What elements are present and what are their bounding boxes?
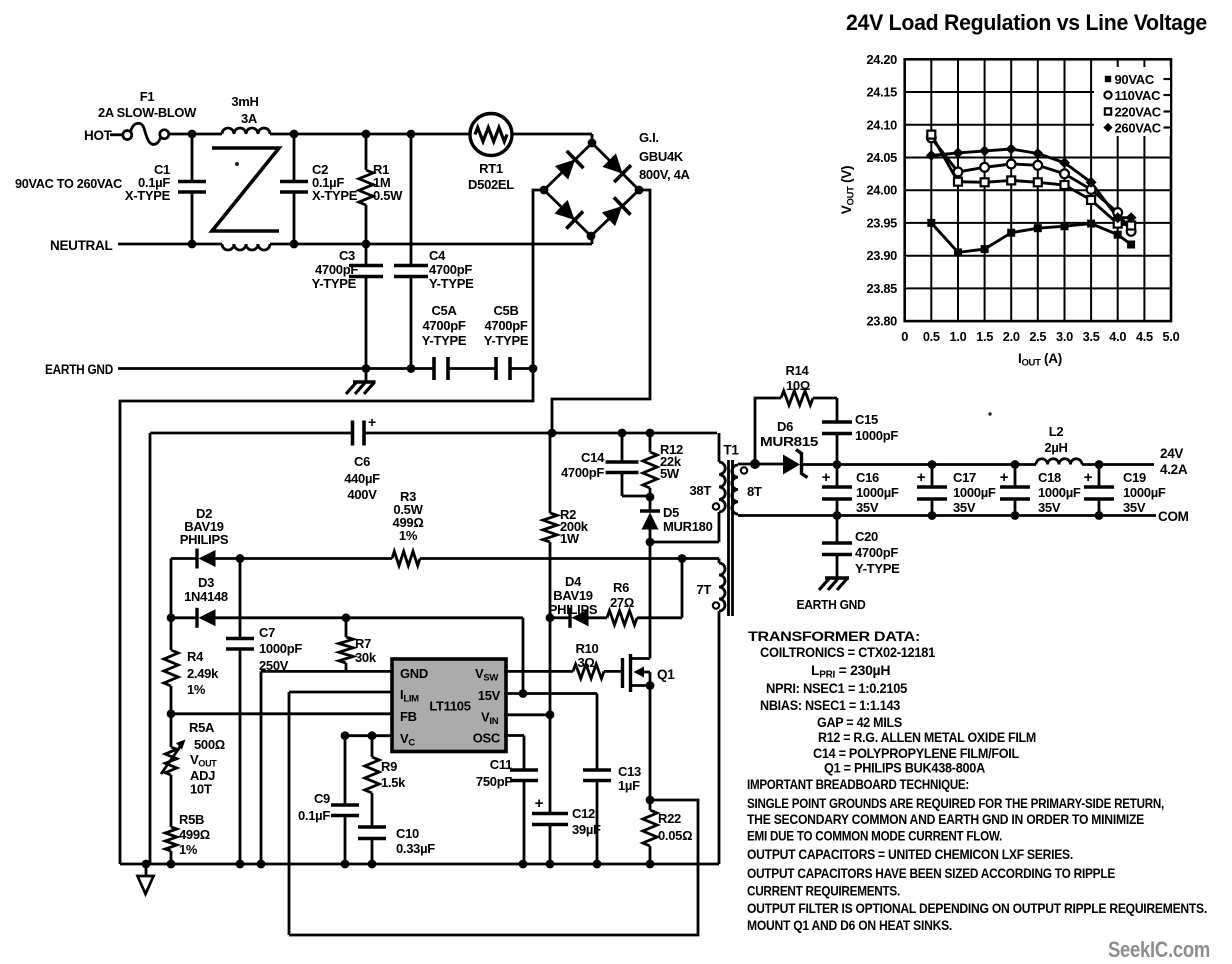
- svg-text:Y-TYPE: Y-TYPE: [422, 333, 467, 348]
- junction dot C17 top: [928, 460, 937, 469]
- capacitor C9: [344, 736, 347, 805]
- svg-text:110VAC: 110VAC: [1115, 88, 1162, 103]
- svg-text:27Ω: 27Ω: [610, 595, 634, 610]
- T1 bias phasing dot: [713, 602, 719, 608]
- chart legend: [1094, 67, 1170, 136]
- capacitor C7: [239, 559, 242, 639]
- capacitor C2: [293, 134, 296, 181]
- wire C6 rail right segment: [365, 432, 718, 435]
- svg-text:C19: C19: [1123, 470, 1146, 485]
- svg-text:GAP = 42 MILS: GAP = 42 MILS: [817, 714, 902, 730]
- junction dot C7 top: [236, 554, 245, 563]
- wire output top rail: [837, 463, 1036, 466]
- svg-text:CURRENT REQUIREMENTS.: CURRENT REQUIREMENTS.: [747, 883, 900, 899]
- wire RT1 to bridge: [512, 133, 592, 136]
- svg-text:MOUNT Q1 AND D6 ON HEAT SINKS.: MOUNT Q1 AND D6 ON HEAT SINKS.: [747, 917, 952, 933]
- diode D3: [171, 616, 196, 619]
- svg-text:RT1: RT1: [479, 161, 503, 176]
- svg-text:R7: R7: [355, 636, 371, 651]
- svg-text:23.95: 23.95: [866, 215, 897, 230]
- svg-text:L2: L2: [1049, 424, 1064, 439]
- chart series 220VAC line: [931, 135, 1131, 226]
- svg-text:4.5: 4.5: [1136, 329, 1153, 344]
- chart series 90VAC markers: [927, 219, 935, 227]
- svg-text:EARTH GND: EARTH GND: [45, 362, 113, 377]
- svg-text:Y-TYPE: Y-TYPE: [429, 276, 474, 291]
- wire HOT rail (fuse to choke): [169, 133, 222, 136]
- svg-text:C18: C18: [1038, 470, 1061, 485]
- svg-text:G.I.: G.I.: [639, 130, 659, 145]
- wire NEUTRAL rail: [118, 243, 222, 246]
- svg-text:2.49k: 2.49k: [187, 666, 219, 681]
- junction dot C18 bottom: [1011, 511, 1020, 520]
- svg-text:0.5: 0.5: [923, 329, 940, 344]
- junction dot R1 bottom C3 top: [362, 240, 371, 249]
- svg-text:1000pF: 1000pF: [259, 641, 302, 656]
- svg-text:R10: R10: [576, 641, 599, 656]
- svg-text:F1: F1: [140, 89, 155, 104]
- svg-text:23.90: 23.90: [866, 248, 897, 263]
- ground symbol (open arrow): [145, 864, 148, 876]
- svg-text:1W: 1W: [560, 531, 580, 546]
- diode D5: [649, 497, 652, 511]
- svg-text:GND: GND: [400, 666, 428, 681]
- inductor choke top winding 3mH: [222, 128, 270, 134]
- svg-text:0: 0: [901, 329, 908, 344]
- svg-text:1µF: 1µF: [618, 778, 640, 793]
- svg-text:3Ω: 3Ω: [577, 655, 594, 670]
- capacitor C10: [358, 825, 386, 829]
- svg-text:15V: 15V: [478, 688, 501, 703]
- svg-text:38T: 38T: [689, 483, 711, 498]
- chart series 90VAC line: [931, 223, 1131, 253]
- bridge diode bottom-right: [602, 206, 622, 226]
- svg-text:24.20: 24.20: [866, 52, 897, 67]
- earth ground symbol output: [825, 576, 849, 579]
- svg-text:1%: 1%: [179, 842, 198, 857]
- svg-text:24V: 24V: [1160, 446, 1183, 461]
- wire current sense loop: [289, 800, 698, 935]
- diode D2: [199, 550, 216, 567]
- svg-text:24.00: 24.00: [866, 183, 897, 198]
- svg-text:Q1 = PHILIPS BUK438-800A: Q1 = PHILIPS BUK438-800A: [824, 760, 985, 776]
- chart series 260VAC line: [931, 149, 1131, 218]
- capacitor C20: [836, 516, 839, 544]
- svg-text:800V, 4A: 800V, 4A: [639, 167, 691, 182]
- chart series 110VAC line: [931, 138, 1131, 232]
- capacitor C13: [596, 694, 599, 771]
- junction dot C5B to DC-minus: [529, 364, 538, 373]
- svg-text:24V Load Regulation vs Line Vo: 24V Load Regulation vs Line Voltage: [846, 10, 1207, 35]
- wire FB pin line: [171, 712, 393, 715]
- svg-text:3.5: 3.5: [1083, 329, 1100, 344]
- capacitor C19: [1098, 465, 1101, 488]
- svg-text:PHILIPS: PHILIPS: [549, 602, 598, 617]
- junction dot Q1 source: [646, 681, 655, 690]
- svg-text:C12: C12: [572, 806, 595, 821]
- svg-text:COILTRONICS = CTX02-12181: COILTRONICS = CTX02-12181: [760, 644, 935, 660]
- svg-text:NBIAS: NSEC1 = 1:1.143: NBIAS: NSEC1 = 1:1.143: [760, 697, 900, 713]
- svg-text:C17: C17: [953, 470, 976, 485]
- junction dot DC-plus on C6 rail: [548, 429, 557, 438]
- svg-text:24.05: 24.05: [866, 150, 897, 165]
- svg-text:GBU4K: GBU4K: [639, 149, 684, 164]
- svg-text:C11: C11: [490, 757, 512, 772]
- stray speck 2: [988, 412, 991, 415]
- diode D4: [550, 616, 570, 619]
- svg-text:0.33µF: 0.33µF: [396, 841, 435, 856]
- junction dot R7 top: [342, 613, 351, 622]
- junction dot C4 top: [407, 130, 416, 139]
- wire C6-left ground drop: [149, 433, 152, 864]
- svg-text:OUTPUT CAPACITORS = UNITED CHE: OUTPUT CAPACITORS = UNITED CHEMICON LXF …: [747, 846, 1073, 862]
- chart y-axis title VOUT (V): [839, 166, 857, 214]
- snubber loop wire: [755, 398, 781, 465]
- svg-text:1%: 1%: [187, 682, 206, 697]
- wire bias drop to R6: [681, 559, 684, 618]
- svg-text:5W: 5W: [660, 466, 680, 481]
- junction dots ground rail: [142, 860, 151, 869]
- junction dot 15V node: [519, 689, 528, 698]
- svg-text:OUTPUT FILTER IS OPTIONAL DEPE: OUTPUT FILTER IS OPTIONAL DEPENDING ON O…: [747, 900, 1207, 916]
- svg-text:35V: 35V: [1038, 500, 1061, 515]
- svg-text:24.15: 24.15: [866, 85, 897, 100]
- svg-text:0.5W: 0.5W: [373, 188, 403, 203]
- svg-text:440µF: 440µF: [344, 471, 380, 486]
- svg-text:R4: R4: [187, 649, 204, 664]
- capacitor C6 (in-line): [351, 421, 355, 446]
- junction dot R1 top: [362, 130, 371, 139]
- resistor R4: [170, 618, 173, 650]
- T1 secondary winding 8T: [738, 463, 755, 466]
- svg-text:D5: D5: [663, 505, 679, 520]
- svg-text:8T: 8T: [747, 484, 762, 499]
- resistor R12: [649, 433, 652, 452]
- bridge vertex dots: [588, 139, 597, 148]
- resistor R3: [392, 551, 420, 565]
- junction dot VIN: [546, 710, 555, 719]
- junction dot R12 top: [646, 429, 655, 438]
- wire drain riser: [649, 542, 652, 659]
- svg-text:D502EL: D502EL: [468, 177, 514, 192]
- wire GND pin line: [261, 670, 393, 673]
- capacitor C12: [549, 715, 552, 814]
- svg-text:C10: C10: [396, 826, 419, 841]
- junction dot C17 bottom: [928, 511, 937, 520]
- inductor L2: [1036, 459, 1082, 465]
- junction dot D3 left: [167, 613, 176, 622]
- svg-text:MUR815: MUR815: [760, 434, 818, 449]
- svg-text:1000µF: 1000µF: [953, 485, 996, 500]
- junction dot C19 top: [1095, 460, 1104, 469]
- svg-text:1000pF: 1000pF: [855, 428, 898, 443]
- svg-text:C20: C20: [855, 529, 878, 544]
- svg-text:C15: C15: [855, 412, 878, 427]
- svg-text:0.05Ω: 0.05Ω: [658, 828, 692, 843]
- chart grid and frame: [905, 59, 1171, 321]
- junction dot C2 top: [290, 130, 299, 139]
- svg-text:X-TYPE: X-TYPE: [125, 188, 171, 203]
- svg-text:D4: D4: [565, 574, 582, 589]
- bridge diode bottom-left: [554, 200, 574, 220]
- svg-text:1.0: 1.0: [950, 329, 967, 344]
- svg-text:D6: D6: [777, 419, 793, 434]
- svg-text:4700pF: 4700pF: [429, 262, 472, 277]
- capacitor C14: [621, 433, 624, 462]
- svg-text:+: +: [1084, 469, 1093, 486]
- wire VSW to R10: [504, 670, 573, 673]
- wire earth gnd line: [118, 367, 434, 370]
- resistor R14: [781, 391, 813, 405]
- chart series 260VAC markers: [926, 150, 937, 161]
- capacitor C17: [931, 465, 934, 488]
- junction dot D6 anode node: [750, 459, 760, 469]
- svg-text:499Ω: 499Ω: [179, 827, 210, 842]
- junction dot R22 top sense: [646, 796, 655, 805]
- svg-text:R14: R14: [786, 363, 810, 378]
- svg-text:1N4148: 1N4148: [184, 589, 228, 604]
- svg-text:C9: C9: [314, 791, 330, 806]
- svg-text:SINGLE POINT GROUNDS ARE REQUI: SINGLE POINT GROUNDS ARE REQUIRED FOR TH…: [747, 795, 1164, 811]
- wire OSC pin line: [504, 734, 524, 737]
- svg-text:Y-TYPE: Y-TYPE: [855, 561, 900, 576]
- junction dot FB node: [167, 709, 176, 718]
- junction dot C1 bottom: [188, 240, 197, 249]
- svg-text:750pF: 750pF: [476, 774, 512, 789]
- svg-text:220VAC: 220VAC: [1115, 104, 1162, 119]
- junction dot R12 bottom: [646, 493, 655, 502]
- svg-text:COM: COM: [1158, 509, 1189, 524]
- junction dot D5 anode: [646, 538, 655, 547]
- fuse F1: [123, 131, 132, 140]
- resistor R5B: [165, 827, 177, 851]
- choke core Z symbol: [212, 148, 279, 231]
- svg-text:BAV19: BAV19: [553, 588, 593, 603]
- op-amp U1 LT1105 body: [392, 659, 506, 752]
- junction dot D4 to VIN riser: [546, 613, 555, 622]
- svg-text:R6: R6: [613, 580, 629, 595]
- junction dot VC-R9: [368, 731, 377, 740]
- svg-text:NEUTRAL: NEUTRAL: [50, 238, 112, 253]
- svg-text:1000µF: 1000µF: [1038, 485, 1081, 500]
- svg-text:4700pF: 4700pF: [422, 318, 465, 333]
- svg-text:0.1µF: 0.1µF: [298, 808, 330, 823]
- svg-text:4700pF: 4700pF: [315, 262, 358, 277]
- bridge diode top-right: [602, 153, 622, 173]
- svg-text:23.85: 23.85: [866, 281, 897, 296]
- wire 15V pin line: [504, 692, 597, 695]
- svg-text:X-TYPE: X-TYPE: [312, 188, 358, 203]
- wire Q1 source to R22: [649, 686, 652, 801]
- svg-text:SeekIC.com: SeekIC.com: [1108, 937, 1210, 962]
- svg-text:+: +: [1000, 469, 1009, 486]
- svg-text:10Ω: 10Ω: [786, 378, 810, 393]
- capacitor C5A: [432, 357, 436, 380]
- svg-text:C14: C14: [581, 450, 605, 465]
- svg-text:23.80: 23.80: [866, 314, 897, 329]
- svg-text:24.10: 24.10: [866, 117, 897, 132]
- svg-text:1.5: 1.5: [976, 329, 993, 344]
- svg-text:35V: 35V: [1123, 500, 1146, 515]
- svg-text:D3: D3: [198, 575, 214, 590]
- svg-text:Y-TYPE: Y-TYPE: [484, 333, 529, 348]
- inductor choke bottom winding: [222, 244, 270, 250]
- wire D5 to primary bottom: [650, 541, 719, 544]
- svg-text:2.0: 2.0: [1003, 329, 1020, 344]
- svg-text:+: +: [917, 469, 926, 486]
- capacitor C11: [510, 768, 538, 772]
- svg-text:R9: R9: [381, 759, 397, 774]
- svg-text:3A: 3A: [241, 111, 258, 126]
- svg-text:4.2A: 4.2A: [1160, 462, 1188, 477]
- wire R2 to VIN: [549, 618, 552, 715]
- svg-text:3mH: 3mH: [231, 94, 258, 109]
- wire HOT lead: [110, 133, 123, 136]
- svg-text:C5B: C5B: [493, 303, 518, 318]
- T1 bias winding 7T: [682, 557, 719, 560]
- capacitor C15: [822, 420, 852, 424]
- junction dot C1 top: [188, 130, 197, 139]
- svg-text:4700pF: 4700pF: [561, 465, 604, 480]
- wire DC-plus from bridge right vertex: [552, 190, 650, 433]
- svg-text:C6: C6: [354, 454, 370, 469]
- svg-text:90VAC: 90VAC: [1115, 72, 1155, 87]
- svg-text:5.0: 5.0: [1163, 329, 1180, 344]
- resistor R6: [607, 611, 637, 625]
- wire DC-minus from bridge left vertex: [120, 190, 544, 864]
- svg-text:C3: C3: [339, 248, 355, 263]
- svg-text:260VAC: 260VAC: [1115, 120, 1162, 135]
- bridge rectifier U2 GBU4K outline: [544, 143, 639, 236]
- svg-text:500Ω: 500Ω: [194, 737, 225, 752]
- resistor R10: [573, 664, 604, 678]
- svg-text:T1: T1: [723, 443, 739, 458]
- svg-text:4700pF: 4700pF: [855, 545, 898, 560]
- resistor R22: [649, 800, 652, 810]
- junction dot C19 bottom: [1095, 511, 1104, 520]
- T1 core: [727, 460, 730, 616]
- svg-text:C4: C4: [429, 248, 446, 263]
- svg-text:LT1105: LT1105: [429, 699, 470, 714]
- potentiometer R5A: [170, 714, 173, 747]
- earth ground symbol (hatched): [365, 369, 368, 383]
- junction dot C15/C16: [833, 460, 842, 469]
- svg-text:R12 = R.G. ALLEN METAL OXIDE: R12 = R.G. ALLEN METAL OXIDE FILM: [818, 729, 1036, 745]
- svg-text:1.5k: 1.5k: [381, 775, 406, 790]
- svg-text:1000µF: 1000µF: [856, 485, 899, 500]
- svg-text:NPRI: NSEC1 = 1:0.2105: NPRI: NSEC1 = 1:0.2105: [766, 680, 907, 696]
- svg-text:3.0: 3.0: [1056, 329, 1073, 344]
- svg-text:4.0: 4.0: [1109, 329, 1126, 344]
- svg-text:C7: C7: [259, 625, 275, 640]
- chart series 110VAC markers: [927, 133, 936, 142]
- T1 secondary phasing dot: [741, 467, 747, 473]
- junction dot C14 top: [618, 429, 627, 438]
- thermistor RT1: [470, 114, 512, 156]
- svg-text:EMI DUE TO COMMON MODE CURRENT: EMI DUE TO COMMON MODE CURRENT FLOW.: [747, 828, 1002, 844]
- svg-text:Q1: Q1: [657, 667, 675, 682]
- T1 primary phasing dot: [713, 503, 719, 509]
- diode D6: [783, 455, 800, 475]
- bridge diode top-left: [555, 160, 575, 180]
- capacitor C4: [410, 244, 413, 265]
- svg-text:2.5: 2.5: [1029, 329, 1046, 344]
- svg-text:OUTPUT CAPACITORS HAVE BEEN SI: OUTPUT CAPACITORS HAVE BEEN SIZED ACCORD…: [747, 865, 1115, 881]
- svg-text:10T: 10T: [190, 782, 212, 797]
- T1 primary winding 38T: [718, 433, 721, 462]
- junction dot C4 earth: [407, 364, 416, 373]
- svg-text:1%: 1%: [399, 528, 418, 543]
- svg-text:+: +: [822, 469, 831, 486]
- capacitor C1: [191, 134, 194, 181]
- wire output bottom rail COM: [738, 514, 1156, 517]
- capacitor C3: [365, 244, 368, 265]
- svg-text:PHILIPS: PHILIPS: [180, 532, 229, 547]
- wire primary ground rail: [120, 863, 719, 866]
- chart series 220VAC markers: [927, 131, 935, 139]
- svg-text:35V: 35V: [856, 500, 879, 515]
- junction dot C18 top: [1011, 460, 1020, 469]
- svg-text:IMPORTANT BREADBOARD TECHNIQUE: IMPORTANT BREADBOARD TECHNIQUE:: [747, 776, 969, 792]
- capacitor C16: [836, 465, 839, 488]
- capacitor C18: [1014, 465, 1017, 488]
- svg-text:R5B: R5B: [179, 812, 204, 827]
- svg-text:+: +: [368, 414, 376, 430]
- resistor R9: [371, 736, 374, 757]
- stray speck 1: [235, 162, 239, 166]
- wire D6 cathode to C16: [802, 463, 838, 466]
- svg-text:R22: R22: [658, 811, 681, 826]
- junction dot bias node: [678, 554, 687, 563]
- svg-text:Y-TYPE: Y-TYPE: [312, 276, 357, 291]
- svg-text:7T: 7T: [696, 582, 711, 597]
- wire secondary top to D6: [755, 463, 783, 466]
- svg-text:R5A: R5A: [189, 720, 215, 735]
- svg-text:90VAC TO 260VAC: 90VAC TO 260VAC: [15, 176, 123, 191]
- wire D2 anode chain vertical: [170, 559, 173, 618]
- wire VIN pin stub: [504, 713, 550, 716]
- svg-text:HOT: HOT: [84, 128, 113, 143]
- svg-text:THE SECONDARY COMMON AND EARTH: THE SECONDARY COMMON AND EARTH GND IN OR…: [747, 811, 1144, 827]
- svg-text:FB: FB: [400, 709, 417, 724]
- wire D2-R3 line: [171, 557, 196, 560]
- resistor R1: [365, 134, 368, 170]
- wire HOT rail (choke to RT1): [270, 133, 470, 136]
- resistor R7: [345, 618, 348, 637]
- wire D3 line to 15V drop: [346, 616, 523, 619]
- svg-text:+: +: [535, 795, 544, 812]
- transistor Q1 (MOSFET): [621, 658, 624, 688]
- svg-text:2A SLOW-BLOW: 2A SLOW-BLOW: [98, 105, 197, 120]
- wire VC pin line: [345, 734, 393, 737]
- capacitor C5B: [494, 357, 498, 380]
- resistor R2: [549, 433, 552, 513]
- svg-text:35V: 35V: [953, 500, 976, 515]
- wire C6 rail left segment: [150, 432, 352, 435]
- svg-text:4700pF: 4700pF: [484, 318, 527, 333]
- svg-text:OSC: OSC: [473, 731, 501, 746]
- svg-text:TRANSFORMER DATA:: TRANSFORMER DATA:: [748, 628, 920, 644]
- svg-text:EARTH GND: EARTH GND: [797, 597, 866, 612]
- junction dot VC-C9: [341, 731, 350, 740]
- junction dot C2 bottom: [290, 240, 299, 249]
- junction dot C16 bottom: [833, 511, 842, 520]
- svg-text:30k: 30k: [355, 650, 377, 665]
- svg-text:1000µF: 1000µF: [1123, 485, 1166, 500]
- wire ILIM pin line: [289, 691, 393, 694]
- svg-text:C16: C16: [856, 470, 879, 485]
- junction dot C3 earth: [362, 364, 371, 373]
